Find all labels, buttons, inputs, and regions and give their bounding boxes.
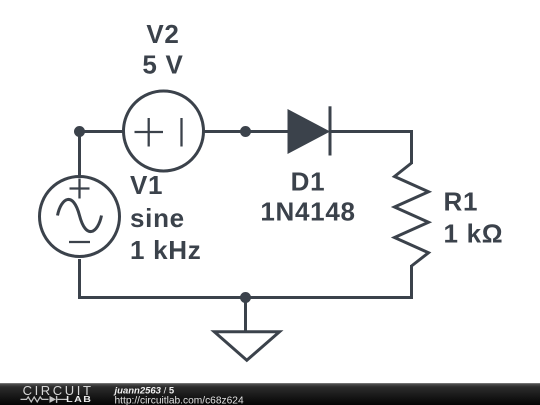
wire: bottom rail from node C to bottom-left corner: [80, 259, 246, 298]
svg-text:http://circuitlab.com/c68z624: http://circuitlab.com/c68z624: [115, 395, 244, 405]
svg-text:1 kHz: 1 kHz: [130, 235, 201, 265]
svg-text:V2: V2: [146, 19, 179, 49]
svg-text:R1: R1: [444, 187, 479, 217]
wire: R1 bottom down to bottom-right corner: [246, 265, 412, 298]
wire: node A to V2 left terminal: [80, 130, 124, 133]
wire: node A down to V1 top terminal: [78, 132, 81, 177]
CircuitLab logo diode: [50, 396, 68, 403]
svg-text:sine: sine: [130, 203, 185, 233]
voltage source V1 (sine): [40, 177, 120, 257]
node A junction dot: [76, 128, 84, 136]
voltage source V2 (DC): [124, 91, 204, 171]
node C junction dot (ground tap): [242, 294, 250, 302]
node B junction dot: [242, 128, 250, 136]
footer bar background: [0, 383, 540, 405]
svg-text:V1: V1: [130, 170, 163, 200]
wire: node B to D1 anode: [246, 130, 290, 133]
svg-text:5 V: 5 V: [142, 50, 183, 80]
svg-text:1N4148: 1N4148: [260, 197, 355, 227]
svg-text:LAB: LAB: [66, 395, 92, 405]
diode D1: [289, 106, 331, 155]
resistor R1: [395, 163, 429, 266]
wire: node C down to ground: [244, 298, 247, 332]
svg-text:D1: D1: [291, 167, 326, 197]
svg-text:1 kΩ: 1 kΩ: [444, 219, 504, 249]
CircuitLab logo resistor squiggle: [21, 397, 49, 402]
wire: D1 cathode to corner then down to R1 top: [331, 132, 412, 165]
ground symbol: [214, 332, 279, 361]
wire: V2 right terminal to node B: [204, 130, 246, 133]
